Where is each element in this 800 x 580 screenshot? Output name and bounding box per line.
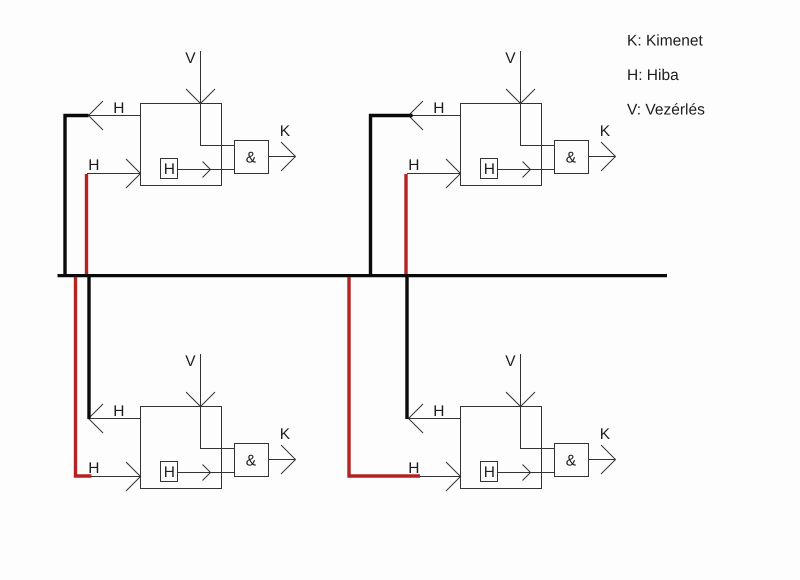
svg-text:K: Kimenet: K: Kimenet [627,33,704,50]
svg-text:V: Vezérlés: V: Vezérlés [627,101,705,118]
svg-text:H: Hiba: H: Hiba [627,67,679,84]
